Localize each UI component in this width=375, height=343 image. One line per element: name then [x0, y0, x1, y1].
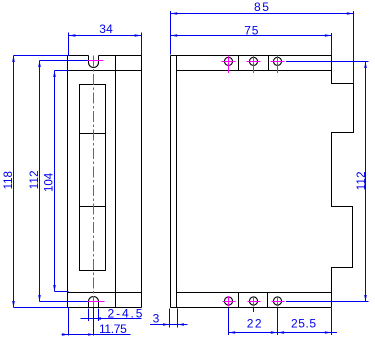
svg-text:118: 118 [3, 171, 15, 189]
svg-text:104: 104 [43, 172, 55, 192]
svg-text:11.75: 11.75 [99, 322, 127, 336]
svg-text:3: 3 [153, 312, 160, 326]
svg-text:25.5: 25.5 [291, 316, 317, 330]
svg-text:34: 34 [99, 22, 113, 36]
svg-text:112: 112 [29, 170, 41, 189]
svg-text:2-4.5: 2-4.5 [108, 306, 145, 320]
svg-text:75: 75 [244, 24, 259, 38]
svg-text:85: 85 [254, 0, 271, 14]
svg-text:22: 22 [247, 316, 263, 330]
svg-text:112: 112 [356, 171, 368, 190]
